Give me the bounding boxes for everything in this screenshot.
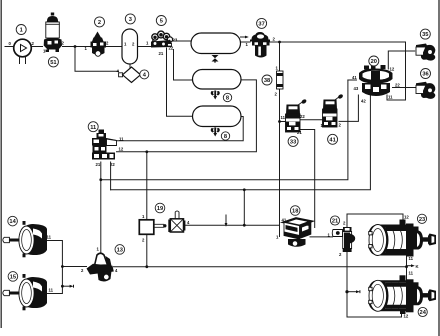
svg-text:42: 42 bbox=[361, 99, 366, 104]
svg-text:21: 21 bbox=[96, 162, 101, 167]
svg-text:19: 19 bbox=[157, 206, 163, 212]
svg-text:21: 21 bbox=[159, 51, 164, 56]
svg-text:35: 35 bbox=[422, 32, 428, 38]
svg-text:41: 41 bbox=[282, 218, 287, 223]
svg-text:12: 12 bbox=[390, 67, 395, 72]
svg-text:8: 8 bbox=[226, 96, 229, 102]
svg-text:1: 1 bbox=[20, 28, 23, 34]
svg-text:8: 8 bbox=[224, 134, 227, 140]
svg-text:22: 22 bbox=[395, 83, 400, 88]
svg-text:2: 2 bbox=[98, 20, 101, 26]
svg-text:3: 3 bbox=[129, 17, 132, 23]
svg-text:11: 11 bbox=[49, 288, 54, 293]
svg-text:23: 23 bbox=[173, 38, 178, 43]
svg-text:33: 33 bbox=[290, 140, 296, 146]
svg-text:11: 11 bbox=[409, 271, 414, 276]
svg-text:36: 36 bbox=[422, 72, 428, 78]
svg-text:43: 43 bbox=[354, 86, 359, 91]
svg-text:11: 11 bbox=[281, 115, 286, 120]
svg-text:12: 12 bbox=[404, 314, 409, 319]
svg-text:13: 13 bbox=[117, 248, 123, 254]
svg-text:42: 42 bbox=[306, 222, 311, 227]
svg-text:41: 41 bbox=[329, 137, 335, 143]
svg-text:51: 51 bbox=[50, 60, 56, 66]
svg-text:11: 11 bbox=[119, 137, 124, 142]
svg-text:21: 21 bbox=[332, 219, 338, 225]
svg-text:12: 12 bbox=[119, 147, 124, 152]
svg-text:11: 11 bbox=[47, 235, 52, 240]
svg-text:37: 37 bbox=[258, 22, 264, 28]
svg-text:22: 22 bbox=[169, 46, 174, 51]
svg-text:11: 11 bbox=[90, 125, 96, 131]
svg-text:24: 24 bbox=[420, 310, 427, 316]
svg-text:14: 14 bbox=[9, 219, 16, 225]
svg-text:18: 18 bbox=[292, 209, 298, 215]
svg-text:11: 11 bbox=[409, 256, 414, 261]
svg-text:21: 21 bbox=[297, 130, 302, 135]
svg-text:23: 23 bbox=[419, 217, 425, 223]
svg-text:20: 20 bbox=[371, 59, 377, 65]
svg-text:5: 5 bbox=[160, 19, 163, 25]
svg-text:15: 15 bbox=[10, 275, 16, 281]
svg-text:38: 38 bbox=[264, 78, 270, 84]
svg-text:22: 22 bbox=[110, 162, 115, 167]
svg-text:12: 12 bbox=[404, 215, 409, 220]
svg-text:11: 11 bbox=[388, 95, 393, 100]
svg-text:41: 41 bbox=[352, 75, 357, 80]
svg-text:22: 22 bbox=[300, 114, 305, 119]
